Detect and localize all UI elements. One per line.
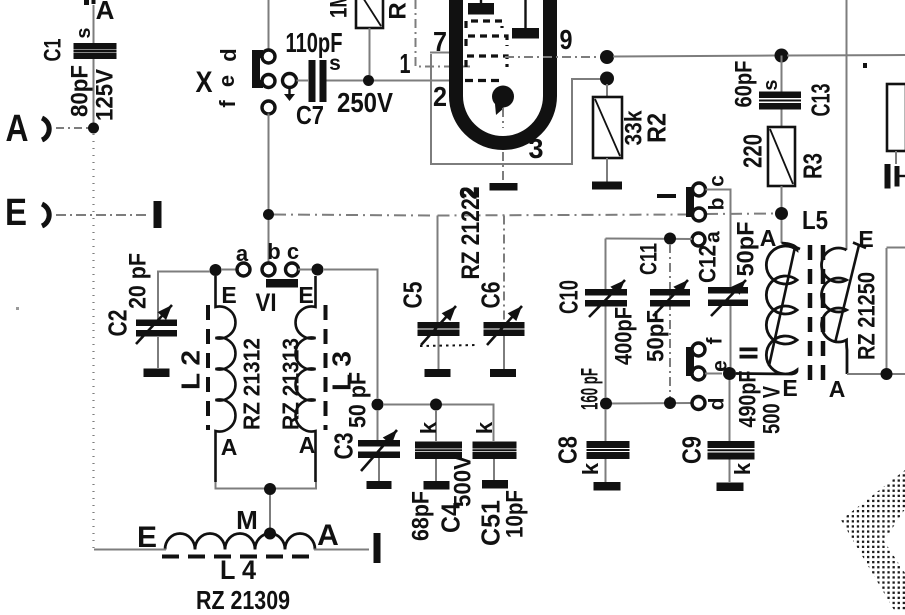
node A junction	[88, 123, 99, 134]
wire L5 secondary bottom to right edge	[847, 373, 905, 375]
wire cathode lead down (inside)	[502, 108, 504, 128]
svg-text:C6: C6	[475, 282, 505, 309]
gang line C5-C6 (dotted)	[420, 345, 478, 346]
wire C8 node to contact d	[606, 402, 691, 405]
svg-text:2: 2	[433, 81, 447, 112]
wire R2 to ground	[606, 158, 608, 182]
capacitor C5 plates	[418, 322, 460, 329]
wire right edge vertical	[886, 248, 888, 368]
wire C5 to ground	[438, 336, 440, 369]
svg-text:f: f	[704, 337, 727, 345]
node C11 top junction	[664, 233, 676, 245]
svg-text:E: E	[782, 375, 797, 401]
ground (C5)	[425, 369, 451, 377]
wire E terminal	[56, 214, 150, 216]
wire node to C4	[435, 410, 437, 441]
inductor L3 winding	[296, 276, 316, 482]
node C4 junction	[430, 399, 442, 411]
wire C10 to node	[605, 307, 607, 399]
tube grid 3	[466, 56, 507, 67]
capacitor C51 (10pF)	[473, 442, 517, 449]
svg-text:s: s	[329, 52, 341, 75]
wire C3 to ground	[378, 458, 380, 481]
wire node to C3 node	[324, 270, 378, 399]
wire node 9 to C13 node	[613, 56, 775, 57]
svg-text:A: A	[299, 432, 316, 458]
svg-text:k: k	[730, 462, 755, 475]
svg-text:k: k	[472, 421, 497, 434]
tube cathode	[492, 86, 514, 108]
svg-text:L 4: L 4	[220, 555, 256, 585]
svg-text:R2: R2	[641, 113, 671, 143]
wire node e to C9	[729, 380, 731, 441]
svg-text:c: c	[287, 239, 299, 264]
svg-text:220: 220	[737, 134, 767, 168]
capacitor C2 (20pF) plates	[136, 320, 177, 327]
trimmer arrow C3	[361, 430, 397, 471]
svg-text:A: A	[829, 376, 846, 402]
svg-text:E: E	[298, 282, 313, 308]
wire down to L4 tap	[269, 495, 271, 528]
tube grid 2	[466, 36, 507, 46]
svg-text:RZ 21312: RZ 21312	[238, 338, 264, 430]
wire R3 to node	[781, 186, 783, 208]
node C13 top junction	[775, 49, 789, 63]
terminal bar (L4 A side)	[374, 533, 381, 563]
svg-text:k: k	[578, 462, 603, 475]
capacitor C6 plates	[484, 322, 525, 329]
svg-text:d: d	[706, 398, 729, 411]
node C8 junction	[600, 398, 612, 410]
svg-text:C13: C13	[805, 84, 835, 117]
ground (C2)	[144, 369, 170, 378]
switch VI closed bar b-c	[266, 279, 298, 288]
resistor R1 (1M)	[356, 0, 383, 28]
inductor L4 winding	[165, 534, 315, 550]
wire node to C2	[158, 272, 210, 320]
svg-text:C4: C4	[435, 503, 465, 533]
core L3 (dashed)	[324, 305, 328, 430]
svg-text:80pF: 80pF	[67, 65, 94, 117]
trimmer arrow C10	[589, 280, 625, 317]
capacitor C10 (400pF) plates	[585, 289, 627, 296]
trimmer arrow C11	[653, 280, 688, 316]
wire bus to C5	[437, 216, 439, 323]
ground (C4)	[424, 481, 450, 490]
svg-text:C5: C5	[397, 282, 427, 309]
capacitor C7	[309, 60, 316, 102]
svg-text:C10: C10	[553, 280, 583, 314]
stub marks top edge	[84, 0, 89, 5]
wire node a-row to C10	[605, 239, 607, 290]
svg-text:68pF: 68pF	[408, 491, 435, 541]
switch VI contact a	[237, 263, 250, 276]
svg-text:9: 9	[560, 24, 573, 55]
svg-text:a: a	[236, 241, 249, 266]
switch X contact e	[262, 75, 275, 88]
trimmer arrow C6	[487, 306, 522, 345]
capacitor C1	[74, 43, 117, 50]
wire L4 to A bar	[314, 549, 369, 551]
svg-text:A: A	[317, 519, 339, 552]
resistor right edge (cut)	[887, 84, 905, 151]
svg-text:60pF: 60pF	[731, 61, 758, 108]
adjust arrow L5 secondary	[835, 245, 859, 343]
ground (C3)	[367, 481, 392, 489]
switch X bracket	[256, 54, 263, 84]
svg-text:A: A	[221, 434, 238, 460]
svg-text:d: d	[216, 48, 241, 61]
node 9 upper junction	[600, 50, 614, 64]
core L4 (dashed)	[162, 555, 318, 559]
wire switch X to node row	[268, 114, 270, 210]
svg-text:1: 1	[400, 48, 411, 79]
ground (C51)	[482, 480, 508, 489]
ground (R2)	[592, 182, 622, 190]
svg-text:RZ 21250: RZ 21250	[854, 272, 881, 360]
wire C51 to ground	[493, 459, 495, 480]
inductor L5 primary winding	[736, 243, 797, 374]
svg-text:RZ 21309: RZ 21309	[196, 585, 290, 610]
svg-text:f: f	[215, 100, 240, 108]
switch X contact f	[262, 101, 275, 114]
node C7 / R1 / grid	[363, 75, 374, 86]
svg-text:b: b	[267, 239, 280, 264]
wire C2 to ground	[157, 337, 159, 368]
tube U1 envelope	[456, 0, 550, 143]
resistor R2 (33k)	[593, 97, 622, 158]
wire contact e to node	[705, 373, 722, 375]
svg-text:E: E	[858, 226, 873, 252]
wire C9 to ground	[729, 460, 731, 483]
svg-text:490pF: 490pF	[735, 371, 762, 428]
trimmer arrow C2	[136, 305, 172, 344]
switch VI contact c	[286, 263, 299, 276]
svg-text:R3: R3	[797, 153, 827, 179]
wire node to C51	[442, 405, 494, 442]
switch contact d (row)	[692, 397, 705, 410]
wire node to R2	[606, 84, 608, 97]
svg-text:E: E	[5, 192, 27, 234]
wire node to C8	[605, 409, 607, 441]
svg-text:a: a	[702, 231, 725, 243]
capacitor C3 (50pF) plates	[358, 440, 400, 447]
svg-text:50 pF: 50 pF	[345, 372, 372, 428]
wire node to C13	[781, 56, 783, 92]
wire L5 secondary top lead from top edge	[846, 0, 848, 250]
wire bus to contact b (VI)	[268, 220, 270, 263]
svg-text:c: c	[706, 175, 729, 187]
svg-text:400pF: 400pF	[611, 307, 638, 365]
chassis bar (E terminal)	[154, 201, 162, 228]
svg-text:A: A	[760, 225, 777, 251]
switch I contact b	[693, 208, 706, 221]
wire switch I c to C12	[706, 190, 731, 288]
wire L2/L3 bottom frame	[216, 482, 317, 489]
svg-text:b: b	[706, 198, 729, 211]
wire C13 to R3	[781, 110, 783, 128]
switch X wiper contact with plunger	[283, 74, 297, 88]
wire bus C5 to switch I	[438, 215, 689, 216]
wire pin1 (dash-dot)	[416, 0, 471, 67]
node C11 bottom junction	[664, 397, 676, 409]
wire C11 column dash-dot	[669, 244, 671, 397]
svg-text:k: k	[416, 421, 441, 434]
wire switch I to R3 node	[706, 213, 775, 216]
wire C3 node to C4 node	[383, 404, 430, 406]
node L3 top junction	[312, 264, 324, 276]
capacitor right edge (cut)	[885, 164, 891, 189]
node right edge junction	[881, 368, 893, 380]
wire antenna column (dashed) down to L4	[92, 134, 94, 550]
wire C8 to ground	[605, 459, 607, 482]
svg-text:C12: C12	[695, 245, 722, 283]
svg-text:e: e	[214, 75, 239, 87]
svg-text:500V: 500V	[450, 455, 477, 507]
wire node to tube grid	[374, 80, 452, 82]
wire R1 to node	[369, 28, 371, 75]
wire C12 to node e	[730, 306, 732, 367]
wire node to C3	[377, 410, 379, 440]
svg-text:s: s	[73, 27, 95, 38]
svg-text:3: 3	[529, 133, 544, 164]
node R3 / L5 junction	[775, 207, 788, 220]
switch VI contact b	[262, 263, 275, 276]
wire grid lead dashes inside tube	[452, 79, 500, 82]
switch I contact c	[693, 183, 706, 196]
wire tube loop pin7 to node 9	[431, 54, 601, 164]
switch X contact d	[262, 50, 275, 63]
svg-text:E: E	[221, 282, 236, 308]
svg-text:M: M	[236, 505, 258, 535]
wire to C7	[297, 80, 309, 82]
switch II contact f	[692, 343, 705, 356]
wire top feed to switch X	[268, 0, 270, 50]
wire contact c to node	[298, 269, 312, 271]
tube anode plate 2	[512, 28, 539, 39]
ground (C8)	[594, 482, 621, 491]
capacitor C13 (60pF)	[759, 92, 801, 99]
wire node to contact a	[221, 269, 237, 271]
wire cathode lead down (below tube)	[502, 152, 504, 181]
speck (scan artifact)	[16, 307, 19, 310]
wire right edge box to capacitor	[895, 151, 897, 164]
svg-text:I: I	[651, 192, 682, 200]
adjust arrow L5 primary	[769, 247, 795, 366]
wire C6 to ground	[503, 336, 505, 369]
ground (C6)	[490, 369, 516, 377]
svg-text:10pF: 10pF	[502, 490, 529, 538]
tube grid 1	[466, 21, 502, 28]
switch contact a (C12)	[692, 233, 705, 246]
svg-text:250V: 250V	[337, 87, 393, 118]
svg-text:RZ 21222: RZ 21222	[457, 187, 485, 280]
svg-text:125V: 125V	[92, 69, 119, 121]
node C3 junction	[372, 399, 384, 411]
wire C4 to ground	[435, 459, 437, 481]
switch II bracket	[690, 351, 697, 372]
cathode terminal bar (pin 2)	[490, 183, 518, 191]
capacitor C8 (160pF)	[587, 441, 630, 448]
svg-text:C9: C9	[676, 436, 706, 464]
node bus left junction	[263, 209, 274, 220]
svg-text:L 2: L 2	[175, 350, 205, 390]
wire C1 top lead	[93, 5, 95, 43]
wire right edge horizontal	[887, 247, 905, 249]
svg-text:50pF: 50pF	[733, 222, 760, 277]
wire E side to L4	[94, 549, 166, 551]
inductor L5 secondary winding	[822, 248, 848, 374]
svg-text:20 pF: 20 pF	[125, 253, 152, 309]
wire pin 7 stub	[430, 52, 452, 54]
resistor R3 (220)	[768, 127, 795, 186]
node 9 lower junction	[600, 72, 614, 86]
wire bus dot to C5 riser	[274, 215, 431, 216]
svg-text:L5: L5	[802, 205, 828, 235]
wire C10 node to contact a	[606, 238, 693, 241]
svg-text:50pF: 50pF	[643, 310, 670, 362]
wire pin 9 dash-dot	[505, 56, 601, 58]
trimmer arrow C5	[421, 306, 456, 345]
node M tap junction	[264, 528, 276, 540]
wire bus to C6 (dash-dot)	[503, 216, 505, 323]
wire node e to L5	[736, 373, 772, 375]
inductor L2 winding	[216, 276, 236, 482]
svg-text:A: A	[96, 0, 115, 25]
svg-text:II: II	[733, 346, 763, 360]
svg-text:RZ 21313: RZ 21313	[277, 338, 303, 430]
svg-text:C8: C8	[552, 436, 582, 464]
node L2 top junction	[210, 264, 222, 276]
svg-text:160 pF: 160 pF	[577, 368, 604, 410]
wire C7 to node	[327, 80, 364, 82]
svg-text:1M: 1M	[326, 0, 353, 18]
ground (C9)	[717, 483, 744, 492]
switch I bracket	[690, 191, 697, 213]
capacitor C11 (50pF) plates	[650, 289, 690, 296]
svg-text:C1: C1	[40, 39, 67, 62]
wire node to right edge	[787, 54, 905, 57]
trimmer arrow C12	[711, 280, 746, 316]
svg-text:s: s	[760, 79, 782, 90]
svg-text:C7: C7	[296, 100, 324, 130]
wire C1 bottom lead	[93, 59, 95, 123]
svg-text:C3: C3	[328, 433, 358, 460]
capacitor C4 (68pF)	[415, 442, 462, 449]
svg-text:A: A	[6, 108, 29, 150]
wire A terminal to junction	[56, 127, 88, 129]
switch II contact e	[692, 367, 705, 380]
svg-text:C11: C11	[636, 243, 663, 275]
svg-text:R: R	[385, 2, 412, 19]
wire R3 node to L5 primary	[781, 220, 783, 243]
core L2 (dashed)	[206, 305, 210, 430]
tube anode plate (top left)	[468, 3, 494, 15]
svg-text:C2: C2	[102, 310, 132, 337]
node e / C9 junction	[723, 367, 736, 380]
core L5 (dashed)	[808, 245, 813, 381]
capacitor C9 (490pF)	[708, 441, 755, 448]
node L2/L3 bottom junction	[264, 483, 276, 495]
svg-text:E: E	[137, 521, 157, 554]
capacitor C12 (50pF) plates	[708, 287, 748, 294]
svg-text:X: X	[196, 66, 213, 99]
svg-text:VI: VI	[256, 289, 277, 317]
